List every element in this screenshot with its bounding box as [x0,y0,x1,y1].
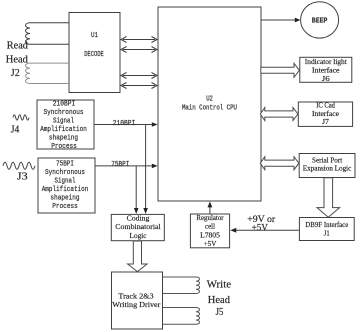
svg-text:+5V: +5V [252,223,269,233]
svg-text:J3: J3 [17,171,28,182]
svg-text:Process: Process [51,143,77,151]
svg-text:shapeing: shapeing [50,195,79,203]
svg-text:Logic: Logic [130,231,148,240]
svg-text:Synchronous: Synchronous [45,169,85,177]
svg-text:J6: J6 [322,75,330,83]
svg-text:Head: Head [6,55,29,66]
svg-text:Writing Driver: Writing Driver [112,300,161,309]
svg-text:J7: J7 [322,118,329,126]
svg-text:+5V: +5V [204,240,217,248]
svg-text:J1: J1 [324,229,330,238]
svg-text:Signal: Signal [55,178,76,186]
svg-text:Interface: Interface [312,110,339,118]
svg-text:cell: cell [205,223,215,231]
svg-text:L7805: L7805 [200,231,220,239]
svg-text:shapeing: shapeing [49,134,78,142]
svg-text:75BPI: 75BPI [56,161,74,169]
svg-text:J2: J2 [11,68,20,79]
svg-text:Indicator light: Indicator light [305,58,347,66]
svg-text:Read: Read [7,41,29,52]
svg-text:J4: J4 [11,124,19,135]
svg-text:Expansion Logic: Expansion Logic [303,164,352,173]
svg-text:DB9F Interface: DB9F Interface [305,220,349,229]
svg-text:DECODE: DECODE [84,51,104,59]
svg-text:Main Control CPU: Main Control CPU [182,105,237,113]
svg-text:Amplification: Amplification [42,186,89,194]
svg-text:U1: U1 [91,32,98,40]
svg-text:75BPI: 75BPI [111,161,129,169]
svg-text:Head: Head [208,295,231,306]
svg-text:Write: Write [207,280,232,291]
svg-text:IC Cad: IC Cad [316,102,335,110]
svg-text:J5: J5 [216,307,224,318]
svg-text:BEEP: BEEP [312,18,328,26]
svg-text:Process: Process [52,203,78,211]
svg-text:Signal: Signal [53,117,74,125]
svg-text:Combinatorial: Combinatorial [115,222,160,231]
svg-text:U2: U2 [206,96,213,104]
svg-text:Amplification: Amplification [40,126,87,134]
svg-text:210BPI: 210BPI [53,100,75,108]
svg-text:210BPI: 210BPI [113,120,135,128]
svg-text:Interface: Interface [312,67,340,75]
svg-text:Regulator: Regulator [196,214,224,222]
svg-text:Synchronous: Synchronous [44,109,84,117]
